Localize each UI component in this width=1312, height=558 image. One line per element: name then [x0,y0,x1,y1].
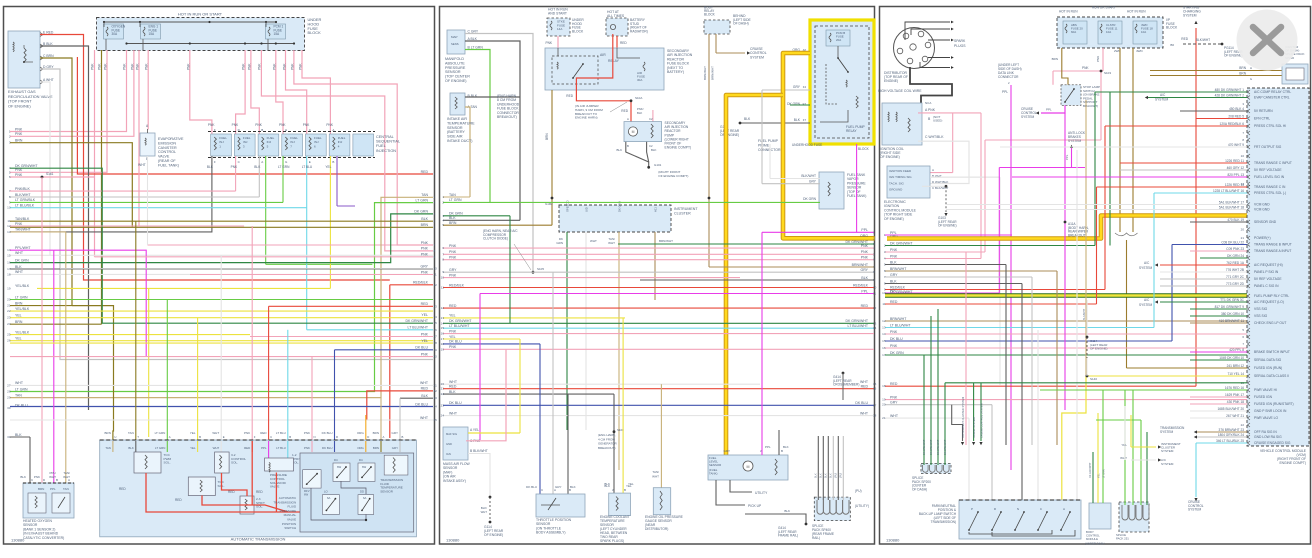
svg-text:SIDE AIR: SIDE AIR [447,135,463,139]
svg-text:BLK: BLK [421,217,428,221]
svg-text:YEL: YEL [190,431,196,435]
svg-text:TAN/: TAN/ [652,470,659,474]
svg-text:SERIAL DATA SIG: SERIAL DATA SIG [1254,358,1282,362]
svg-text:PNK: PNK [91,63,95,70]
svg-text:SENSOR GND: SENSOR GND [1254,220,1277,224]
svg-text:20: 20 [7,298,11,302]
svg-text:MODULE: MODULE [1086,537,1098,541]
svg-text:YEL/BLK: YEL/BLK [15,330,30,334]
svg-text:BRN: BRN [15,139,23,143]
svg-text:PNK: PNK [123,63,127,70]
svg-text:F: F [214,160,216,164]
svg-text:BLK: BLK [617,148,623,152]
svg-text:LT GRN: LT GRN [155,446,165,450]
svg-text:WHT: WHT [860,380,869,384]
svg-text:BLK: BLK [830,473,833,478]
svg-text:BLK: BLK [784,509,790,513]
svg-text:A PNK: A PNK [925,108,936,112]
svg-text:BRN: BRN [421,223,429,227]
svg-text:BODY ASSEMBLY): BODY ASSEMBLY) [536,531,565,535]
svg-text:LT GRN: LT GRN [449,198,462,202]
svg-text:PNK: PNK [861,256,869,260]
svg-text:DK GRN/WHT: DK GRN/WHT [845,319,868,323]
svg-text:PPL: PPL [50,487,56,491]
svg-text:LT GRN: LT GRN [278,165,290,169]
svg-text:18: 18 [873,414,877,418]
svg-text:BRN: BRN [15,320,23,324]
svg-text:AIR: AIR [600,53,606,57]
svg-text:PPL: PPL [861,289,868,293]
svg-text:GRY: GRY [890,273,898,277]
svg-text:WHT: WHT [652,475,659,479]
svg-text:FUSED IGN (RUN): FUSED IGN (RUN) [1254,366,1282,370]
svg-text:A: A [332,128,334,132]
svg-text:A: A [554,488,556,492]
svg-text:PNK: PNK [449,250,457,254]
svg-text:17: 17 [7,267,11,271]
svg-text:PNK: PNK [890,395,898,399]
svg-text:13: 13 [7,230,11,234]
svg-text:WHT: WHT [590,239,597,243]
svg-text:RED: RED [449,385,457,389]
svg-text:RED: RED [620,41,627,45]
svg-text:GND P SNR LOCK IN: GND P SNR LOCK IN [1254,409,1287,413]
svg-text:D: D [367,435,369,439]
svg-text:DK GRN/WHT: DK GRN/WHT [930,439,933,455]
svg-text:DK GRN/WHT: DK GRN/WHT [937,439,940,455]
svg-text:GRY: GRY [890,401,898,405]
svg-text:10: 10 [441,276,445,280]
svg-text:IGNITION FEED: IGNITION FEED [889,169,912,173]
svg-text:22: 22 [434,389,438,393]
svg-text:FUEL PUMP RLY CTRL: FUEL PUMP RLY CTRL [1254,294,1289,298]
svg-text:H: H [285,128,287,132]
svg-text:22: 22 [7,309,11,313]
svg-text:430 PNK 18: 430 PNK 18 [1227,400,1244,404]
svg-text:SOL.: SOL. [231,461,238,465]
svg-text:A/C REQUEST (HI): A/C REQUEST (HI) [1254,263,1283,267]
svg-text:OF ENGINE COMPT): OF ENGINE COMPT) [658,174,688,178]
svg-text:PNK: PNK [449,244,457,248]
svg-text:18: 18 [882,384,886,388]
svg-text:PNK: PNK [421,241,429,245]
svg-text:LT BLU/WHT: LT BLU/WHT [890,323,911,327]
svg-text:TAN: TAN [449,193,456,197]
svg-text:R: R [336,435,338,439]
svg-text:TRANS RANGE C IN: TRANS RANGE C IN [1254,185,1286,189]
svg-text:PNK: PNK [279,123,286,127]
svg-text:DD: DD [360,490,364,494]
svg-text:YEL/BLK: YEL/BLK [15,284,30,288]
svg-text:LT BLU/BLK: LT BLU/BLK [15,204,35,208]
svg-text:6A: 6A [327,496,331,500]
svg-text:INJECTION: INJECTION [376,149,396,153]
svg-text:S140: S140 [1090,377,1097,381]
svg-text:PNK: PNK [104,63,108,70]
svg-text:MANIFOLD: MANIFOLD [445,57,464,61]
svg-text:A: A [627,117,629,121]
svg-text:TRANSMISSION): TRANSMISSION) [931,520,956,524]
svg-text:PRESS CTRL SOL HI: PRESS CTRL SOL HI [1254,124,1286,128]
svg-text:460 GRY 12: 460 GRY 12 [1227,166,1245,170]
svg-text:11: 11 [873,292,876,296]
svg-text:A11: A11 [654,207,658,212]
svg-text:RED: RED [260,431,267,435]
svg-text:PRIME: PRIME [758,143,770,147]
svg-text:WHT: WHT [15,251,24,255]
svg-text:OF ENGINE): OF ENGINE) [1090,347,1108,351]
svg-text:WHT: WHT [212,431,219,435]
svg-text:(PU): (PU) [835,473,838,478]
svg-text:BLK/WHT: BLK/WHT [801,174,816,178]
svg-text:13: 13 [441,316,445,320]
svg-text:TT1 DK GRN 3C: TT1 DK GRN 3C [1220,298,1245,302]
svg-text:WHT: WHT [890,414,899,418]
svg-text:PNK: PNK [255,123,262,127]
svg-text:WHT: WHT [860,411,869,415]
svg-text:FUEL LEVEL SIG IN: FUEL LEVEL SIG IN [1254,175,1285,179]
svg-text:VCM GND: VCM GND [1254,208,1270,212]
svg-text:5A1 BLK/WHT 18: 5A1 BLK/WHT 18 [1219,206,1244,210]
svg-text:TAN: TAN [63,487,69,491]
svg-text:RED: RED [1181,37,1188,41]
svg-text:25: 25 [434,418,438,422]
svg-text:SYSTEM: SYSTEM [1155,98,1168,102]
svg-text:B BLK/WHT: B BLK/WHT [470,449,488,453]
svg-text:BRN/WHT: BRN/WHT [890,317,907,321]
svg-text:17: 17 [441,337,445,341]
svg-text:PNK: PNK [15,132,23,136]
svg-text:CROSSMEMBER): CROSSMEMBER) [833,383,859,387]
svg-text:ORG: ORG [357,446,364,450]
svg-text:5V RETURN: 5V RETURN [1254,109,1273,113]
svg-text:DK GRN: DK GRN [414,210,428,214]
svg-text:30A: 30A [637,78,642,82]
svg-text:BLK: BLK [890,260,897,264]
svg-text:U: U [114,435,116,439]
svg-text:14A: 14A [557,27,562,31]
svg-text:SERIAL DATA CLASS II: SERIAL DATA CLASS II [1254,374,1289,378]
svg-text:B: B [199,435,201,439]
svg-text:VCM GND: VCM GND [1254,203,1270,207]
svg-text:15A: 15A [274,32,281,36]
svg-text:21: 21 [882,416,886,420]
svg-text:WHT: WHT [420,381,429,385]
svg-text:(UTILITY): (UTILITY) [855,504,869,508]
svg-text:DK GRN: DK GRN [449,212,463,216]
svg-text:EFN CTRL: EFN CTRL [1254,117,1270,121]
svg-text:DK BLU: DK BLU [415,346,428,350]
svg-text:SYSTEM: SYSTEM [1068,139,1081,143]
svg-text:15: 15 [882,339,886,343]
svg-text:1629 PNK 17: 1629 PNK 17 [1225,393,1244,397]
svg-text:17: 17 [882,353,886,357]
svg-text:DK GRN/WHT: DK GRN/WHT [890,290,913,294]
svg-text:CRUISE ENGAGED SIG: CRUISE ENGAGED SIG [1254,441,1291,445]
svg-text:BLK: BLK [20,475,26,479]
svg-text:14: 14 [873,326,877,330]
svg-text:GRY: GRY [860,268,868,272]
svg-text:30: 30 [7,406,11,410]
svg-text:RAIL): RAIL) [812,536,820,540]
svg-text:DK BLU: DK BLU [449,401,462,405]
svg-text:SOUND SYSTEM: SOUND SYSTEM [972,417,976,438]
svg-text:CONNECTOR: CONNECTOR [998,75,1019,79]
svg-text:GRY: GRY [724,449,730,453]
svg-text:(TOP CENTER: (TOP CENTER [445,75,470,79]
svg-text:16: 16 [7,261,11,265]
svg-text:PNK: PNK [15,173,23,177]
svg-text:SYSTEM: SYSTEM [1183,14,1197,18]
svg-text:ORG: ORG [357,431,365,435]
svg-text:PNK: PNK [244,431,250,435]
svg-text:F: F [254,435,256,439]
svg-text:DK GRN: DK GRN [803,197,816,201]
svg-text:FRT OUTPUT SIG: FRT OUTPUT SIG [1254,145,1282,149]
svg-text:A: A [1063,507,1065,511]
svg-text:PANEL P SIG IN: PANEL P SIG IN [1254,270,1279,274]
svg-text:PNK: PNK [861,250,869,254]
svg-text:BLK: BLK [604,484,610,488]
svg-text:21: 21 [434,383,438,387]
svg-text:BLOCK: BLOCK [308,30,322,35]
svg-text:14: 14 [882,332,886,336]
svg-text:773 GRY 2D: 773 GRY 2D [1226,282,1245,286]
svg-text:B: B [402,435,404,439]
svg-text:450 BLK 4: 450 BLK 4 [1229,107,1244,111]
svg-text:YEL: YEL [15,314,22,318]
svg-text:PNK: PNK [34,475,40,479]
svg-text:SYSTEM: SYSTEM [1139,303,1152,307]
svg-text:F7: F7 [803,118,807,122]
svg-text:11: 11 [7,219,10,223]
svg-text:BLK: BLK [449,216,456,220]
svg-text:ENGINE): ENGINE) [884,79,898,83]
svg-text:A: A [612,488,614,492]
svg-text:SENSOR: SENSOR [445,70,461,74]
svg-text:TRANS RANGE A INPUT: TRANS RANGE A INPUT [1254,249,1291,253]
svg-text:YEL: YEL [1098,473,1101,478]
svg-text:771 GRY 2C: 771 GRY 2C [1226,275,1245,279]
svg-text:27: 27 [7,383,11,387]
svg-text:11: 11 [882,302,885,306]
svg-text:11: 11 [441,286,444,290]
svg-text:FUEL TANK): FUEL TANK) [158,163,179,167]
svg-text:WHT: WHT [608,241,615,245]
svg-text:YEL: YEL [421,339,428,343]
svg-text:RED: RED [890,382,898,386]
svg-text:G101: G101 [654,163,662,167]
svg-text:GRY: GRY [392,446,398,450]
svg-text:RED: RED [421,387,429,391]
svg-text:BLK: BLK [449,390,456,394]
svg-text:BRN: BRN [1239,66,1246,70]
svg-text:RADIATOR): RADIATOR) [630,29,648,33]
svg-text:24: 24 [434,405,438,409]
svg-text:GRY: GRY [449,268,457,272]
svg-text:LT GRN/BLK: LT GRN/BLK [15,198,36,202]
svg-text:VSS SIG: VSS SIG [1254,314,1268,318]
svg-text:RELAY: RELAY [608,59,620,63]
svg-text:SYSTEM: SYSTEM [1188,508,1201,512]
svg-text:18: 18 [434,341,438,345]
svg-text:1685 BLK/WHT 20: 1685 BLK/WHT 20 [1217,407,1244,411]
svg-text:PNK: PNK [145,63,149,70]
svg-text:POWER(+): POWER(+) [1254,236,1271,240]
svg-text:C2: C2 [649,117,653,121]
svg-text:SPARK PLUGS): SPARK PLUGS) [600,539,624,543]
svg-text:DK BLU: DK BLU [855,401,868,405]
svg-text:SOL.: SOL. [164,461,171,465]
svg-text:B6: B6 [1170,43,1174,47]
svg-text:C08 DK BLU 22: C08 DK BLU 22 [1221,241,1244,245]
svg-text:WHT: WHT [420,416,429,420]
svg-text:BLK: BLK [815,473,818,478]
svg-text:SENSOR: SENSOR [447,126,463,130]
svg-text:S161: S161 [46,172,54,176]
svg-text:PNK: PNK [1082,66,1089,70]
svg-text:15A: 15A [149,32,156,36]
svg-text:A: A [169,435,171,439]
svg-text:PNK: PNK [187,63,191,70]
svg-text:PLUGS: PLUGS [954,44,966,48]
svg-text:PNK: PNK [304,446,310,450]
svg-text:GROUND: GROUND [889,188,903,192]
svg-text:24: 24 [7,322,11,326]
svg-text:DISTRIBUTOR): DISTRIBUTOR) [645,527,668,531]
svg-text:4WD: 4WD [1136,49,1144,53]
svg-text:BRN/WHT: BRN/WHT [659,239,673,243]
svg-text:CATALYTIC CONVERTER): CATALYTIC CONVERTER) [23,536,64,540]
svg-text:SWITCH: SWITCH [284,526,296,530]
svg-text:TACH. SIG: TACH. SIG [889,181,904,185]
svg-text:OF ENGINE): OF ENGINE) [720,133,739,137]
svg-text:FUEL PUMP: FUEL PUMP [758,139,779,143]
svg-text:DK BLU: DK BLU [322,431,333,435]
svg-text:BLK/WHT: BLK/WHT [1196,38,1210,42]
svg-text:24: 24 [441,414,445,418]
svg-text:PNK: PNK [890,330,898,334]
svg-text:BLK: BLK [15,265,22,269]
svg-text:S103: S103 [1104,71,1111,75]
svg-text:PPL: PPL [1046,108,1052,112]
svg-text:PNK: PNK [421,247,429,251]
svg-text:DK GRN/WHT: DK GRN/WHT [890,241,913,245]
svg-text:SYSTEM: SYSTEM [1160,430,1173,434]
svg-text:FRAME RAIL): FRAME RAIL) [778,534,798,538]
svg-text:BRN/WHT: BRN/WHT [711,66,715,80]
svg-text:HOT IN RUN: HOT IN RUN [1127,10,1146,14]
svg-text:241 BRN 12: 241 BRN 12 [1227,364,1245,368]
svg-text:14: 14 [434,315,438,319]
svg-text:RED/BLK: RED/BLK [449,283,465,287]
svg-text:N: N [1017,507,1019,511]
svg-text:GRY: GRY [793,85,801,89]
svg-text:BRN: BRN [105,431,111,435]
svg-text:AND START: AND START [548,11,567,15]
svg-text:130880: 130880 [446,538,460,543]
svg-text:C: C [270,435,272,439]
svg-text:5A1 BLK/WHT 17: 5A1 BLK/WHT 17 [1219,201,1244,205]
svg-text:17: 17 [873,403,877,407]
svg-text:428 DK GRN/WHT 2: 428 DK GRN/WHT 2 [1215,94,1245,98]
svg-text:A/C: A/C [1144,298,1150,302]
svg-text:OF DASH): OF DASH) [733,22,749,26]
svg-text:TANK): TANK) [709,471,717,475]
svg-text:380 DK GRN 10: 380 DK GRN 10 [1221,312,1244,316]
svg-text:N: N [314,435,316,439]
svg-text:VSS SIG: VSS SIG [1254,307,1268,311]
svg-text:21: 21 [441,387,445,391]
svg-text:WHT: WHT [213,446,220,450]
svg-text:BRN: BRN [1239,72,1246,76]
svg-text:RED: RED [421,302,429,306]
svg-text:RED: RED [175,498,182,502]
svg-text:480 DK GRN/WHT 1: 480 DK GRN/WHT 1 [1215,88,1245,92]
svg-text:21: 21 [1241,236,1245,240]
svg-text:19: 19 [434,348,438,352]
svg-text:H: H [1250,66,1252,70]
svg-text:15: 15 [441,326,445,330]
svg-text:LT GRN: LT GRN [155,431,166,435]
svg-text:PNK: PNK [136,63,140,70]
svg-text:TAN: TAN [421,193,428,197]
svg-text:ABSOLUTE: ABSOLUTE [445,61,465,65]
svg-text:RED/BLK: RED/BLK [853,283,869,287]
svg-text:E: E [309,160,311,164]
svg-text:PRESSURE: PRESSURE [445,66,466,70]
svg-text:BLK: BLK [861,276,868,280]
svg-text:PNK: PNK [258,63,262,70]
svg-text:12: 12 [882,319,886,323]
svg-text:22: 22 [441,392,445,396]
svg-text:WHT: WHT [15,381,24,385]
svg-text:31: 31 [7,435,11,439]
svg-text:LT BLU/WHT: LT BLU/WHT [848,324,869,328]
svg-text:BLOCK: BLOCK [1166,26,1178,30]
svg-text:30A: 30A [112,32,119,36]
svg-text:A: A [932,168,934,172]
svg-text:22: 22 [1241,423,1245,427]
svg-text:PNK: PNK [232,123,239,127]
svg-text:PNK: PNK [208,123,215,127]
svg-text:IGN TIMING SIG: IGN TIMING SIG [889,175,912,179]
svg-text:20: 20 [1241,228,1245,232]
svg-text:BLOCK: BLOCK [858,147,870,151]
svg-text:PACK 251: PACK 251 [1116,536,1129,540]
svg-text:16: 16 [441,332,445,336]
svg-text:DK BLU: DK BLU [890,337,903,341]
svg-text:20: 20 [434,355,438,359]
svg-text:DK GRN/WHT: DK GRN/WHT [923,439,926,455]
svg-text:DK GRN 24: DK GRN 24 [1227,254,1244,258]
svg-text:OF ENGINE): OF ENGINE) [445,79,467,83]
svg-text:BRN/WHT: BRN/WHT [890,267,907,271]
svg-text:LT GRN: LT GRN [1103,469,1106,478]
svg-text:PNK: PNK [449,329,457,333]
svg-text:INTAKE DUCT): INTAKE DUCT) [447,139,473,143]
svg-text:B: B [332,160,334,164]
svg-text:776 WHT 2B: 776 WHT 2B [1226,268,1244,272]
svg-text:TAN/BLK: TAN/BLK [15,217,30,221]
svg-text:D4: D4 [359,458,363,462]
svg-text:DK GRN/WHT: DK GRN/WHT [405,319,428,323]
svg-text:19: 19 [882,398,886,402]
svg-text:PNK: PNK [421,270,429,274]
svg-text:CLUTCH DIODE): CLUTCH DIODE) [483,237,508,241]
svg-text:BREAKOUT): BREAKOUT) [598,446,616,450]
svg-text:28: 28 [7,390,11,394]
